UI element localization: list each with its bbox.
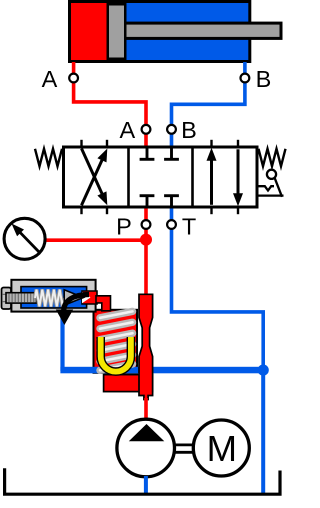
adjustment screw threaded rod [6,293,37,303]
valve divider left [127,147,130,207]
adjustment cone (poppet) [64,290,83,305]
pump suction line (blue) [144,476,148,494]
valve port T circle [167,220,176,229]
motor M1 [193,420,249,476]
valve port stubs [82,140,239,214]
valve port A circle [142,125,151,134]
pressure gauge G1 [4,218,45,259]
relief valve spool bore (red, hourglass) [139,294,153,399]
relief valve adjustment screw housing [2,280,96,312]
cylinder piston [107,3,127,60]
pilot passage from cone to spring chamber (red) [82,291,97,304]
valve return spring right [259,149,286,166]
adjustment spring (horizontal zigzag) [35,290,64,307]
port A cylinder [69,74,78,83]
valve centre position blocked ports (T symbols) [140,147,179,208]
tank return drop line (blue) [261,370,265,493]
junction node P (red dot) [140,234,152,246]
valve return spring left [35,149,62,166]
relief valve coil spring [100,311,133,370]
relief valve spring chamber (red) [94,310,138,373]
port B cylinder [241,74,250,83]
tank T1 [5,468,280,494]
cylinder piston rod [127,22,283,40]
svg-text:M: M [207,428,237,469]
relief valve bottom block (red) [104,375,153,392]
svg-text:B: B [256,66,272,92]
wire T: valve T port to tank junction (blue) [172,207,264,370]
valve divider right [191,147,194,207]
relief valve poppet cup (yellow) [101,337,131,372]
pump P1 [117,419,175,477]
valve port P circle [142,220,151,229]
cylinder C1 body [68,0,251,63]
wire: junction down to relief valve (red) [144,239,148,297]
wire B: cylinder port B to valve port B (blue) [172,62,245,146]
valve port B circle [167,125,176,134]
valve left position crossed arrows [82,149,108,206]
svg-text:P: P [116,213,132,239]
coupling shaft [175,445,193,452]
drain line from screw housing to tank line (blue) [60,311,64,371]
wire P: valve P port down to junction (red) [144,207,148,240]
svg-text:T: T [182,213,196,239]
svg-text:A: A [42,66,58,92]
junction node T (blue dot) [258,365,269,376]
svg-text:B: B [181,117,197,143]
svg-text:A: A [119,117,135,143]
valve V1 body (4/3-way) [64,147,258,207]
wire: relief valve to pump (red) [144,398,148,419]
valve hand lever with detent [259,170,284,197]
gauge supply line (red) [46,238,146,242]
tank return line (thick blue) [60,367,263,374]
adjustment direction curved arrow [64,295,89,312]
wire A: cylinder port A to valve port A (red) [74,62,146,146]
valve right position parallel arrows [207,148,244,207]
